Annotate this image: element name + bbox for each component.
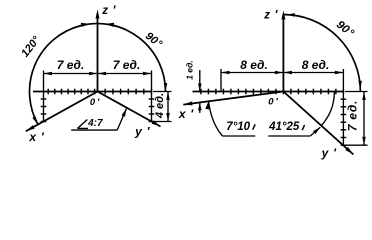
svg-text:0 ′: 0 ′ [90, 97, 100, 108]
svg-text:x ′: x ′ [28, 130, 44, 144]
svg-text:x ′: x ′ [178, 107, 194, 121]
svg-text:7 ед.: 7 ед. [345, 100, 359, 132]
svg-text:z ′: z ′ [263, 10, 278, 22]
svg-text:z ′: z ′ [101, 5, 116, 17]
svg-text:7 ед.: 7 ед. [57, 58, 85, 72]
svg-text:y ′: y ′ [134, 124, 150, 138]
svg-text:y ′: y ′ [321, 146, 337, 160]
svg-text:8 ед.: 8 ед. [302, 58, 330, 72]
svg-text:7 ед.: 7 ед. [113, 58, 141, 72]
svg-text:4:7: 4:7 [87, 118, 103, 129]
svg-text:7°10: 7°10 [226, 121, 250, 133]
svg-text:8 ед.: 8 ед. [240, 58, 268, 72]
svg-text:1 ед.: 1 ед. [184, 60, 194, 80]
svg-text:41°25: 41°25 [268, 121, 300, 133]
svg-text:0 ′: 0 ′ [268, 97, 278, 108]
svg-text:4 ед.: 4 ед. [154, 93, 166, 119]
